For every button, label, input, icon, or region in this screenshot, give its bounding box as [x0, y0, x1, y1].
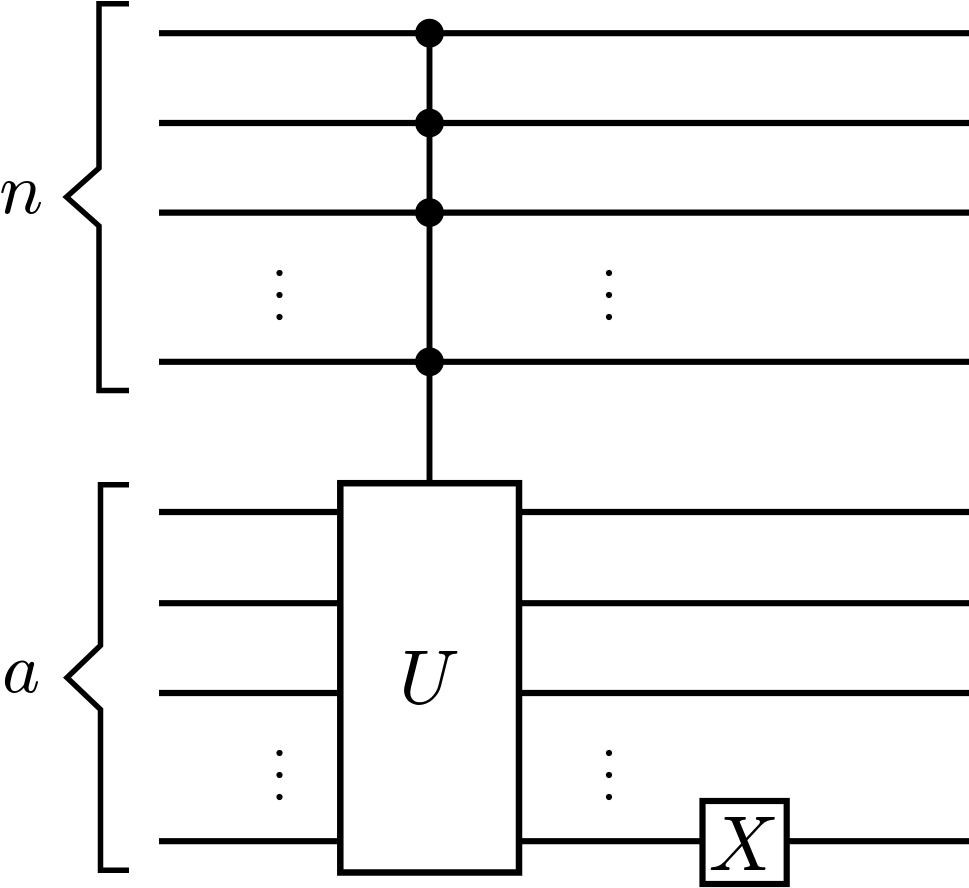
- wire control bus vertical: [427, 33, 433, 481]
- wire aa right segment (X to edge): [787, 838, 969, 844]
- brace for n register: [67, 4, 130, 391]
- wire aa middle segment (U to X): [519, 838, 702, 844]
- control dot on q3: [415, 198, 444, 227]
- control dot on qn: [415, 347, 444, 376]
- wire a1 right segment: [519, 509, 969, 515]
- ellipsis dots bottom-right: [606, 750, 612, 800]
- gate X box: [703, 801, 787, 884]
- wire a3 right segment: [519, 690, 969, 696]
- label n: [1, 181, 41, 214]
- gate U box: [340, 483, 519, 872]
- label a: [5, 660, 38, 693]
- wire a2 left segment: [159, 600, 340, 606]
- wire a1 left segment: [159, 509, 340, 515]
- wire q3 (control qubit 3): [159, 210, 969, 216]
- control dot on q2: [415, 109, 444, 138]
- ellipsis dots top-right: [606, 270, 612, 320]
- ellipsis dots top-left: [276, 270, 282, 320]
- wire aa left segment: [159, 838, 340, 844]
- wire qn (control qubit n): [159, 359, 969, 365]
- brace for a register: [67, 485, 129, 871]
- gate U label: [404, 651, 457, 705]
- wire q2 (control qubit 2): [159, 120, 969, 126]
- wire q1 (control qubit 1): [159, 30, 969, 36]
- wire a3 left segment: [159, 690, 340, 696]
- control dot on q1: [415, 19, 444, 48]
- gate X label: [711, 817, 775, 870]
- ellipsis dots bottom-left: [276, 750, 282, 800]
- wire a2 right segment: [519, 600, 969, 606]
